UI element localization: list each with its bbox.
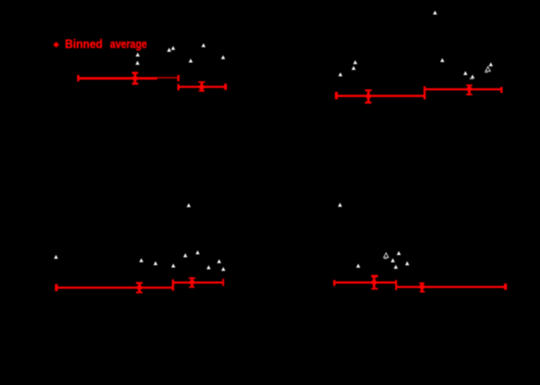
svg-text:average: average [110,37,147,51]
svg-text:Binned: Binned [65,37,103,51]
